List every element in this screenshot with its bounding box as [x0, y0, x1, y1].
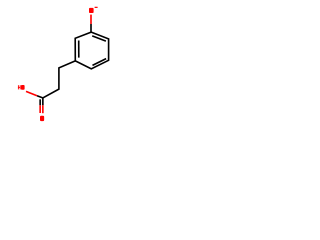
bond O1-C1 red half [90, 15, 92, 24]
atom label O- (phenolate O1) [89, 7, 98, 13]
double bond inner line C1=C2 [92, 36, 106, 41]
bond C9-O3 red half [26, 91, 37, 95]
double bond inner line C3=C4 [92, 59, 106, 66]
atom label O (carbonyl O2) [40, 116, 44, 121]
atom label HO (hydroxyl O3) [18, 85, 25, 90]
benzene ring outer hexagon [75, 32, 108, 69]
bond O1-C1 black half [90, 24, 92, 33]
bond C9-O3 black half [37, 96, 43, 98]
double bond inner line C5=C6 [78, 40, 80, 57]
double bond C9=O2 main line [42, 98, 44, 105]
chain bonds C5-C7-C8-C9 [43, 61, 76, 98]
molecule: 3-(3-oxidophenyl)propanoic acid structure [0, 0, 130, 130]
double bond C9=O2 second line [39, 99, 41, 105]
